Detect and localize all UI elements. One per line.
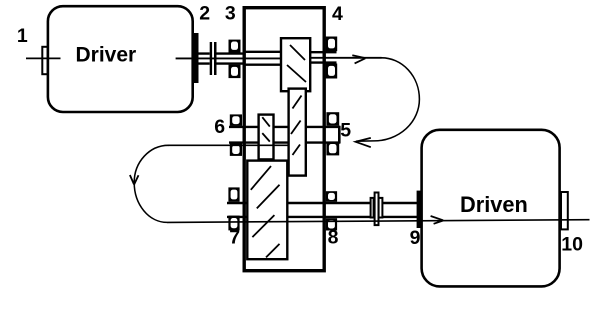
label 9 <box>410 227 421 249</box>
label 1 <box>17 25 28 47</box>
input axis centerline left stub <box>26 57 61 59</box>
label 4 <box>332 3 343 25</box>
gear B (middle gear) <box>289 89 306 176</box>
right loop top arrowhead <box>352 55 365 63</box>
bottom shaft band <box>227 202 421 218</box>
gear D (output gear) <box>247 161 287 260</box>
svg-text:8: 8 <box>328 227 339 249</box>
svg-text:7: 7 <box>229 227 240 249</box>
left loop arrowhead <box>130 175 139 184</box>
middle loop line <box>168 144 289 146</box>
label 5 <box>340 120 351 142</box>
driven label <box>460 192 528 217</box>
label 3 <box>225 3 236 25</box>
input axis centerline right segment <box>310 57 382 59</box>
svg-text:3: 3 <box>225 3 236 25</box>
shaft end cap 10 <box>561 192 568 229</box>
coupling 2 <box>210 42 217 75</box>
motor flange <box>193 33 198 83</box>
output axis line <box>167 220 590 223</box>
driver machine M1 <box>48 6 193 112</box>
bearing 7 <box>228 187 239 230</box>
svg-text:Driven: Driven <box>460 192 528 217</box>
left rotation loop <box>134 145 168 222</box>
svg-text:10: 10 <box>561 233 583 255</box>
driven machine M2 <box>422 130 560 287</box>
svg-text:6: 6 <box>214 116 225 138</box>
svg-text:5: 5 <box>340 120 351 142</box>
bearing 8 <box>326 191 337 230</box>
gearbox housing <box>244 8 324 271</box>
label 2 <box>199 3 210 25</box>
shaft end cap 1 <box>42 47 47 74</box>
input axis centerline middle segment <box>176 57 281 59</box>
label 7 <box>229 227 240 249</box>
right rotation loop <box>356 58 419 141</box>
driver label <box>76 44 137 67</box>
bearing 6 <box>230 114 242 155</box>
coupling 9 <box>371 193 383 226</box>
svg-text:9: 9 <box>410 227 421 249</box>
svg-text:2: 2 <box>199 3 210 25</box>
bearing 5 <box>326 112 339 155</box>
svg-text:4: 4 <box>332 3 343 25</box>
svg-text:1: 1 <box>17 25 28 47</box>
label 10 <box>561 233 583 255</box>
gear A (input pinion) <box>281 38 310 91</box>
label 6 <box>214 116 225 138</box>
right loop bottom arrowhead <box>356 138 371 147</box>
input shaft band right segment <box>310 51 337 63</box>
bearing 4 <box>326 37 338 79</box>
driven axis arrow <box>431 216 444 224</box>
bearing 3 <box>229 40 241 79</box>
driven machine flange <box>417 191 421 228</box>
svg-text:Driver: Driver <box>76 44 137 67</box>
input shaft band inside gearbox <box>245 51 281 66</box>
input shaft band outside gearbox <box>199 53 246 65</box>
label 8 <box>328 227 339 249</box>
gear C (middle pinion) <box>259 115 274 160</box>
middle shaft band <box>229 126 341 144</box>
